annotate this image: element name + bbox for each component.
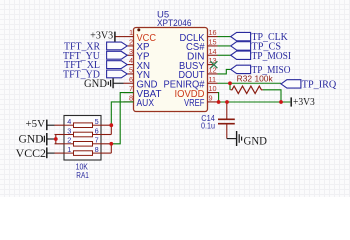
svg-text:0.1u: 0.1u [201,122,215,131]
net flag TFT_XR (to U5 pin 2) [64,41,127,52]
resistor array RA1 body [64,116,101,161]
svg-text:3: 3 [67,126,71,135]
net flag TP_MISO [231,65,291,76]
svg-text:TP_MOSI: TP_MOSI [252,51,292,62]
svg-text:15: 15 [209,38,217,47]
net flag TP_CLK [231,32,289,43]
svg-text:GND: GND [244,135,268,147]
U5 pin 5 (YN) left stub + number + name [124,66,151,82]
svg-text:9: 9 [209,94,213,103]
U5 pin 4 (XN) left stub + number + name [124,56,151,72]
svg-text:2: 2 [67,136,71,145]
svg-text:VCC2: VCC2 [16,148,47,160]
svg-text:7: 7 [95,136,99,145]
svg-text:1: 1 [67,145,71,154]
svg-text:1: 1 [129,28,133,37]
RA1 value 10K [76,163,89,172]
wire U5 pin 10 IOVDD down to VREF net [218,93,219,102]
wire U5 pin 12 DOUT to flag TP_MISO [218,69,231,74]
U5 pin 1 (VCC) left stub + number + name [124,28,157,44]
U5 designator [157,9,169,20]
RA1 pin 8 (right) stub + number [95,145,112,154]
svg-text:14: 14 [209,47,217,56]
RA1 pin 6 (right) stub + number [95,126,112,135]
svg-text:TP_IRQ: TP_IRQ [302,79,337,90]
U5 value XPT2046 [157,18,192,29]
RA1 pin 5 (right) stub + number [95,117,112,126]
U5 pin 6 (GND) left stub + number + name [124,75,158,91]
U5 pin 16 (DCLK) right stub + number + name [180,28,218,44]
junction R32/VREF/+3V3 [279,100,283,104]
svg-text:6: 6 [95,126,99,135]
RA1 internal resistor 3 [64,142,101,147]
svg-text:XPT2046: XPT2046 [157,18,192,29]
svg-text:GND: GND [84,78,107,90]
RA1 pin 7 (right) stub + number [95,136,112,145]
junction IOVDD/VREF [217,100,221,104]
U5 pin 14 (DIN) right stub + number + name [187,47,218,63]
svg-text:8: 8 [95,145,99,154]
wire VREF net (U5 pin 9 to +3V3) [218,101,291,103]
wire U5 pin 15 to flag [218,45,231,47]
wire U5 pin 7 VBAT to RA1 pin 7 [111,93,133,144]
wire U5 pin 8 AUX to RA1 pin 5 [111,102,133,125]
ground symbol GND (to RA1 pins 3,2) [19,133,56,145]
RA1 pin 2 (left) stub + number [55,136,72,145]
resistor R32 zigzag [230,83,281,102]
svg-text:+3V3: +3V3 [293,97,315,108]
svg-text:RA1: RA1 [76,171,89,180]
RA1 designator [76,171,89,180]
U5 pin 11 (PENIRQ#) right stub + number + name [164,75,218,91]
svg-text:8: 8 [129,94,133,103]
RA1 pin 1 (left) stub + number [55,145,72,154]
capacitor C14 plates + leads [218,102,235,139]
wire U5 pin 16 to flag [218,36,231,38]
svg-text:3: 3 [129,47,133,56]
junction PENIRQ#/R32 [228,81,232,85]
net flag TP_IRQ [281,79,337,90]
RA1 internal resistor 1 [64,123,101,128]
U5 pin 7 (VBAT) left stub + number + name [124,84,163,100]
wire U5 pin 11 PENIRQ# to flag TP_IRQ [218,82,282,84]
svg-text:+3V3: +3V3 [90,31,113,42]
U5 pin 13 (BUSY) right stub + number + name [179,56,217,72]
net flag TFT_XL (to U5 pin 4) [64,60,127,71]
RA1 internal resistor 2 [64,132,101,137]
power port VCC2 (to RA1 pin 1) [16,147,55,160]
power port +3V3 (bottom right) [291,97,315,108]
junction VBAT/RA1 pins 7-8 [109,142,113,146]
net flag TFT_YU (to U5 pin 3) [63,51,127,62]
svg-text:10: 10 [209,84,217,93]
resistor R32 designator/value [237,75,274,84]
power port +5V (to RA1 pin 4) [26,118,55,130]
U5 pin 8 (AUX) left stub + number + name [124,94,155,110]
svg-text:R32 100k: R32 100k [237,75,274,84]
svg-text:GND: GND [19,133,44,145]
RA1 pin 4 (left) stub + number [55,117,72,126]
U5 pin 15 (CS#) right stub + number + name [186,38,218,54]
svg-text:+5V: +5V [26,118,46,130]
svg-text:5: 5 [129,66,133,75]
U5 pin-1 marker dot [137,28,140,31]
U5 pin 2 (XP) left stub + number + name [124,38,150,54]
svg-text:16: 16 [209,28,217,37]
U5 pin 9 (VREF) right stub + number + name [184,94,218,110]
U5 pin 3 (YP) left stub + number + name [124,47,150,63]
no-connect X on U5 pin 13 (BUSY) [210,61,217,68]
junction AUX/RA1 pins 5-6 [109,123,113,127]
net flag TP_CS [231,41,281,52]
svg-text:4: 4 [67,117,71,126]
U5 pin 12 (DOUT) right stub + number + name [179,66,218,82]
ground symbol GND (to U5 pin 6) [84,78,124,90]
capacitor C14 value 0.1u [201,122,215,131]
wire U5 pin 14 to flag [218,54,231,56]
power port +3V3 (top, to U5 pin 1) [90,31,123,42]
svg-text:VREF: VREF [184,98,205,109]
svg-text:2: 2 [129,38,133,47]
svg-text:AUX: AUX [137,98,155,109]
wire RA1 pin 8 up to pin 7 junction [110,144,112,153]
svg-text:4: 4 [129,56,133,65]
svg-text:7: 7 [129,84,133,93]
ground symbol GND (below C14) [227,131,267,147]
net flag TP_MOSI [231,51,291,62]
svg-text:11: 11 [209,75,217,84]
capacitor C14 designator [201,114,215,123]
wire RA1 pin 6 up to pin 5 junction [110,125,112,134]
junction VREF/C14 [225,100,229,104]
RA1 pin 3 (left) stub + number [55,126,72,135]
svg-text:5: 5 [95,117,99,126]
IC U5 XPT2046 body [134,28,208,112]
svg-text:6: 6 [129,75,133,84]
net flag TFT_YD (to U5 pin 5) [63,69,127,80]
U5 pin 10 (IOVDD) right stub + number + name [175,84,218,100]
junction GND/RA1 pins 2-3 [54,137,58,141]
RA1 internal resistor 4 [64,151,101,156]
